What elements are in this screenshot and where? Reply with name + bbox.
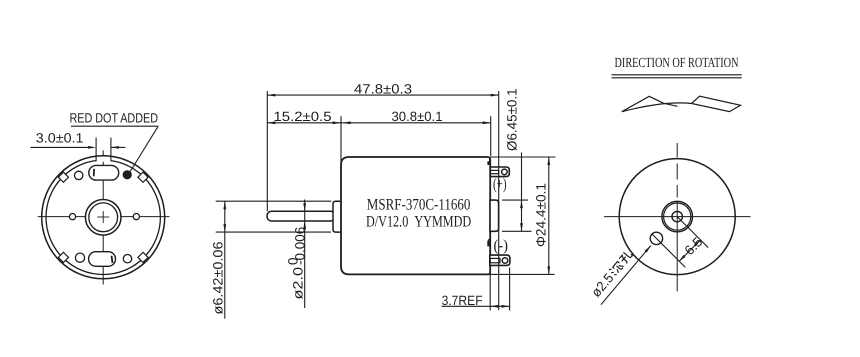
terminal bottom (-) (490, 255, 510, 265)
top key tab side lines (95, 138, 97, 162)
terminal top slot (490, 170, 498, 173)
CJK glyph 'kong' approx (618, 250, 633, 265)
dim 3.7REF underline + arrows (442, 305, 491, 307)
top vent slot (89, 165, 119, 180)
vertical centerline (102, 150, 104, 284)
svg-text:Ø6.45±0.1: Ø6.45±0.1 (505, 88, 520, 151)
CJK glyph 'chen' approx (608, 260, 624, 276)
hub ring circle (664, 203, 691, 230)
outer can circle (42, 156, 165, 279)
dim phi2.0 line (304, 200, 306, 309)
dim 30.8 extension left (body edge up) (340, 116, 342, 165)
rim notch top-left (58, 172, 68, 182)
dim 6.5 line (679, 240, 701, 262)
leader: RED DOT ADDED (71, 125, 158, 127)
dim 3.7REF: extensions (489, 268, 491, 311)
svg-text:DIRECTION OF ROTATION: DIRECTION OF ROTATION (615, 56, 739, 71)
svg-text:(-): (-) (494, 238, 509, 255)
svg-text:47.8±0.3: 47.8±0.3 (354, 81, 412, 96)
svg-text:15.2±0.5: 15.2±0.5 (274, 109, 332, 124)
diagonal line through center (677, 217, 708, 248)
dim 47.8 extension left (266, 91, 268, 211)
rim notch top-right (138, 172, 148, 182)
dim phi6.42 line (224, 201, 226, 319)
text phi2.5 + CJK (rotated) (588, 248, 635, 300)
terminal top hole (502, 169, 508, 175)
svg-text:3.0±0.1: 3.0±0.1 (36, 130, 84, 145)
dimension 3.0±0.1 (31, 146, 92, 148)
dim 47.8 line (267, 94, 498, 96)
shaft bushing (333, 201, 342, 232)
rotation arrow glyph (622, 103, 692, 112)
terminal bottom hole (502, 258, 508, 264)
brush mark in bottom slot (111, 256, 114, 263)
svg-text:Φ24.4±0.1: Φ24.4±0.1 (534, 183, 549, 247)
dim phi24.4: extensions (490, 156, 555, 158)
dim phi6.45 line (521, 153, 523, 232)
crimp tab top right (487, 158, 490, 165)
svg-text:D/V12.0 YYMMDD: D/V12.0 YYMMDD (366, 213, 471, 230)
inner end-cap circle (46, 160, 160, 274)
motor body (341, 157, 490, 274)
dim phi24.4 line (548, 157, 550, 274)
vertical centerline dashes (676, 164, 678, 180)
horizontal centerline (604, 216, 751, 218)
crimp tab bottom right (487, 239, 490, 247)
svg-text:RED DOT ADDED: RED DOT ADDED (70, 111, 159, 126)
bottom left hole (75, 253, 84, 262)
terminal top (+) (490, 167, 509, 177)
svg-text:MSRF-370C-11660: MSRF-370C-11660 (367, 197, 471, 214)
svg-text:ø2.0: ø2.0 (291, 267, 306, 300)
dim phi6.42: extensions (216, 200, 332, 202)
center cross (97, 216, 109, 218)
hub outer circle (662, 201, 693, 232)
shaft hole circle (672, 211, 682, 221)
diagonal line through hole (652, 234, 685, 267)
shaft (267, 211, 335, 221)
leader phi2.5 (601, 246, 651, 305)
vertical centerline solid top (676, 143, 678, 157)
bottom right hole (123, 255, 131, 263)
rim notch bottom-right (138, 252, 148, 262)
rim notch bottom-left (58, 252, 68, 262)
red dot (filled) (123, 171, 131, 179)
brush mark in top slot (93, 169, 95, 176)
right side hole (133, 214, 139, 220)
top key tab (3.0 wide) (96, 156, 111, 161)
dim 15.2 / 30.8 line (267, 122, 490, 124)
rear bearing boss (490, 200, 499, 231)
center hub outer circle (85, 200, 121, 236)
dim 47.8 extension right (498, 91, 500, 310)
svg-text:-0.006: -0.006 (293, 227, 308, 265)
rear circle (619, 159, 735, 275)
svg-text:ø6.42±0.06: ø6.42±0.06 (211, 242, 226, 315)
terminal bottom slot (490, 258, 500, 262)
bottom vent slot (89, 252, 116, 267)
left side hole (69, 214, 75, 220)
center hub inner circle (89, 203, 118, 232)
countersink hole phi2.5 (650, 232, 662, 244)
svg-text:3.7REF: 3.7REF (442, 293, 483, 308)
text phi2.0 tolerance (rotated) (286, 227, 308, 300)
dim 30.8 extension right (490, 116, 492, 156)
top small hole (75, 171, 83, 179)
DIRECTION OF ROTATION underline (double) (612, 74, 742, 76)
vertical centerline solid bottom (676, 201, 678, 291)
dim phi6.45: extensions (502, 199, 528, 201)
horizontal centerline (38, 216, 170, 218)
svg-text:30.8±0.1: 30.8±0.1 (392, 109, 443, 124)
svg-text:(+): (+) (493, 176, 507, 193)
